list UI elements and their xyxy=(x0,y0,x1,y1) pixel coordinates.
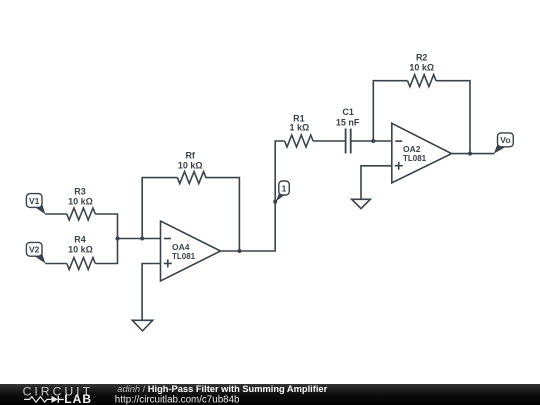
op-amp OA2 plus pin mark xyxy=(395,162,403,170)
wire OA2 output to Vo xyxy=(452,153,495,155)
svg-text:10 kΩ: 10 kΩ xyxy=(68,197,93,207)
wire OA2 non-inverting input to ground xyxy=(361,166,392,200)
logo diode xyxy=(52,396,59,403)
svg-text:adinh / High-Pass Filter with: adinh / High-Pass Filter with Summing Am… xyxy=(117,384,327,394)
svg-text:10 kΩ: 10 kΩ xyxy=(409,63,434,73)
wire R2 left vertical xyxy=(373,81,407,141)
svg-text:TL081: TL081 xyxy=(172,252,196,261)
svg-text:10 kΩ: 10 kΩ xyxy=(68,245,93,255)
capacitor C1 xyxy=(346,129,351,154)
wire Rf left vertical xyxy=(142,178,177,239)
wire OA4 non-inverting input to ground xyxy=(142,264,160,321)
junction R3/R4 node xyxy=(116,237,120,241)
svg-text:C1: C1 xyxy=(342,107,354,117)
svg-text:R4: R4 xyxy=(74,235,86,245)
logo resistor zigzag xyxy=(24,397,52,403)
footer bar xyxy=(0,384,540,405)
wire R4 to junction xyxy=(95,239,117,264)
wire V2 to R4 xyxy=(45,263,67,265)
svg-text:OA2: OA2 xyxy=(403,144,421,154)
op-amp OA4 minus pin mark xyxy=(164,238,171,240)
resistor R4 xyxy=(67,258,96,270)
svg-text:V1: V1 xyxy=(29,196,40,206)
wire OA4 output to node 1 riser xyxy=(221,141,285,251)
wire junction to OA4 inverting input xyxy=(118,238,161,240)
junction Rf to inverting input xyxy=(140,237,144,241)
wire C1 to OA2 inverting input xyxy=(351,140,392,142)
svg-text:V2: V2 xyxy=(29,245,40,255)
net tag Vo xyxy=(494,133,514,154)
svg-text:Rf: Rf xyxy=(185,151,195,161)
resistor R2 xyxy=(408,75,437,87)
svg-text:OA4: OA4 xyxy=(172,242,190,252)
wire R1 to C1 xyxy=(313,140,346,142)
net tag V1 xyxy=(26,194,45,215)
svg-text:Vo: Vo xyxy=(500,135,510,145)
resistor Rf xyxy=(177,172,206,184)
svg-text:1: 1 xyxy=(282,184,287,194)
svg-text:TL081: TL081 xyxy=(403,154,427,163)
op-amp OA2 minus pin mark xyxy=(395,140,402,142)
svg-text:1 kΩ: 1 kΩ xyxy=(290,123,310,133)
junction node 1 tag xyxy=(273,200,277,204)
op-amp OA4 body xyxy=(161,221,221,281)
op-amp OA2 body xyxy=(392,123,452,183)
svg-text:15 nF: 15 nF xyxy=(336,117,360,127)
svg-text:LAB: LAB xyxy=(64,392,92,405)
wire R3 to junction xyxy=(95,214,117,239)
junction R2 to C1 output xyxy=(371,139,375,143)
net tag node 1 xyxy=(276,181,290,202)
net tag V2 xyxy=(26,242,45,263)
svg-text:10 kΩ: 10 kΩ xyxy=(178,161,203,171)
junction Rf to OA4 output xyxy=(237,249,241,253)
resistor R3 xyxy=(67,208,96,220)
wire R2 right vertical xyxy=(436,81,470,154)
svg-text:http://circuitlab.com/c7ub84b: http://circuitlab.com/c7ub84b xyxy=(115,394,240,405)
wire V1 to R3 xyxy=(45,213,67,215)
wire Rf right vertical xyxy=(205,178,239,251)
junction R2 to OA2 output xyxy=(468,152,472,156)
resistor R1 xyxy=(285,135,314,147)
svg-text:R2: R2 xyxy=(416,53,428,63)
ground GND2 xyxy=(352,199,371,208)
ground GND1 xyxy=(132,320,152,331)
op-amp OA4 plus pin mark xyxy=(164,259,172,267)
svg-text:R3: R3 xyxy=(74,187,86,197)
